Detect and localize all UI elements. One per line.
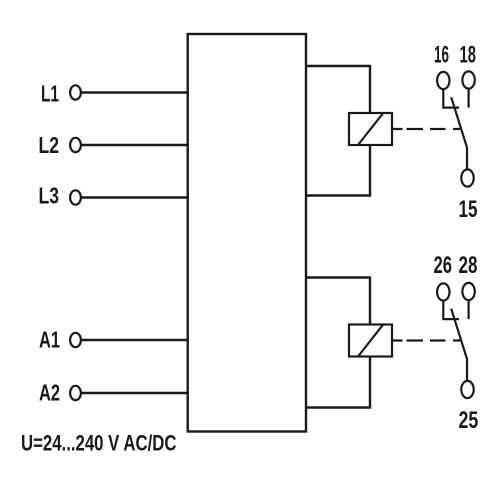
svg-text:26: 26: [434, 252, 453, 279]
svg-text:16: 16: [434, 41, 449, 68]
wire L3 to body: [82, 196, 188, 198]
terminal L1: [70, 85, 81, 99]
svg-text:25: 25: [459, 407, 479, 434]
terminal 15: [461, 169, 473, 186]
terminal 26: [437, 283, 449, 300]
wire A1 to body: [82, 339, 188, 341]
wire terminal 28 stem: [468, 301, 470, 319]
contact armature 25: [451, 309, 467, 380]
terminal L2: [70, 138, 81, 152]
wire terminal 18 stem: [468, 90, 470, 108]
terminal 18: [462, 71, 474, 88]
wire L1 to body: [82, 91, 188, 93]
wire L2 to body: [82, 144, 188, 146]
device body U1: [188, 34, 306, 432]
svg-text:U=24...240 V AC/DC: U=24...240 V AC/DC: [21, 431, 177, 456]
contact armature 15: [451, 97, 467, 168]
svg-text:L2: L2: [39, 132, 60, 158]
wire terminal 26 stem: [443, 302, 459, 320]
wire body to relay coil K2 top: [306, 278, 370, 325]
terminal 28: [462, 283, 474, 300]
wire A2 to body: [82, 392, 188, 394]
svg-text:18: 18: [460, 41, 477, 68]
terminal A2: [70, 386, 81, 400]
svg-text:L3: L3: [39, 183, 60, 209]
terminal L3: [70, 190, 81, 204]
svg-text:28: 28: [459, 252, 478, 279]
wire relay coil K1 bottom to body: [306, 145, 370, 196]
relay coil K1: [349, 113, 392, 145]
svg-text:15: 15: [459, 196, 478, 223]
dashed actuation link K1: [392, 128, 460, 130]
svg-text:A2: A2: [39, 380, 60, 406]
wire terminal 16 stem: [443, 90, 459, 108]
svg-text:A1: A1: [39, 327, 60, 353]
dashed actuation link K2: [392, 339, 460, 341]
wire relay coil K2 bottom to body: [306, 357, 370, 408]
terminal A1: [70, 333, 81, 347]
relay coil K2: [349, 325, 392, 357]
terminal 16: [437, 72, 449, 89]
svg-text:L1: L1: [41, 81, 59, 107]
wire body to relay coil K1 top: [306, 66, 370, 113]
terminal 25: [461, 381, 473, 398]
